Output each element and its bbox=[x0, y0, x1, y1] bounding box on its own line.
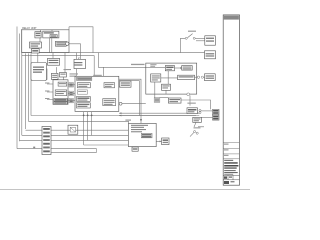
wire rt pair right 2 bbox=[119, 81, 140, 116]
G1 circles bbox=[199, 109, 201, 111]
wire radio right stub bbox=[44, 69, 47, 80]
wire vertical to T1 bbox=[52, 53, 54, 61]
low right box bbox=[205, 74, 216, 81]
rt top label row bbox=[77, 78, 92, 81]
symbol box bbox=[68, 125, 78, 134]
freq unit label bbox=[125, 120, 131, 121]
handset cluster box 2 bbox=[60, 73, 67, 78]
amp inner box a bbox=[58, 82, 67, 86]
rt bottom pins bbox=[83, 115, 85, 117]
mid right box bbox=[205, 51, 216, 59]
wire through symbol box bbox=[68, 129, 70, 131]
wire vertical to radio set box bbox=[37, 53, 39, 63]
wire vertical to box 2 area bbox=[76, 53, 78, 60]
wire horizontal bus y115 bbox=[31, 115, 199, 117]
junction dot bbox=[140, 119, 142, 121]
synth bottom connector pair bbox=[154, 98, 160, 102]
title block bbox=[223, 15, 239, 185]
switch contact b bbox=[193, 37, 195, 39]
wire horizontal bus y148 bbox=[17, 148, 97, 150]
wire drop from RT unit 3 bbox=[91, 112, 93, 135]
amp am-fm box bbox=[55, 90, 66, 96]
arrow A to C bbox=[175, 67, 181, 69]
wire W right exit bbox=[195, 76, 198, 78]
title cell row bbox=[223, 175, 239, 179]
wire G2 down bbox=[194, 122, 196, 127]
wire BC to B1 bbox=[156, 140, 160, 142]
wire left vertical bus 3 bbox=[21, 29, 23, 135]
xtal box bbox=[120, 81, 131, 87]
wire relay box interior drop 2 bbox=[49, 38, 51, 52]
amp freq row 2 bbox=[54, 102, 67, 105]
switch label bbox=[188, 31, 196, 32]
wire relay top feeds bbox=[40, 30, 42, 32]
connector stack bbox=[42, 127, 51, 155]
handset label bbox=[64, 69, 72, 70]
synth corner label bbox=[150, 64, 156, 65]
synth edge circle bbox=[197, 76, 199, 78]
G3 label bbox=[194, 127, 201, 128]
terminal circle on wire bbox=[119, 102, 122, 105]
gap connector row 3 bbox=[68, 100, 75, 102]
synth box C bbox=[182, 66, 193, 71]
wire relay box interior drop 3 bbox=[51, 38, 53, 52]
wire BC bottom stub bbox=[134, 146, 136, 148]
wire circles to H1 bbox=[201, 110, 212, 112]
relay box R2 bbox=[43, 31, 59, 38]
wire pair lower 1 bbox=[119, 112, 199, 114]
title divider rows bbox=[223, 143, 239, 159]
G1 box bbox=[187, 108, 197, 114]
wire vertical to handset cluster bbox=[64, 53, 66, 73]
wire switch to rcvr box 2 bbox=[196, 40, 205, 42]
wire A down bbox=[167, 71, 169, 84]
relay box R5 rect bbox=[56, 41, 67, 46]
box T1 bbox=[48, 58, 60, 65]
amp left labels bbox=[45, 83, 49, 84]
wire y103 to synth box bbox=[119, 103, 146, 105]
amp unit box bbox=[53, 80, 68, 105]
title bottom cells bbox=[224, 181, 229, 184]
radio set box bbox=[31, 63, 47, 81]
amp freq row 1 bbox=[54, 99, 67, 102]
wire horizontal bus y121 bbox=[29, 121, 129, 123]
wire rt to xtal box bbox=[119, 86, 122, 88]
synth box W bbox=[178, 75, 195, 80]
synth box P bbox=[162, 84, 171, 90]
wire horizontal bus y129 bbox=[26, 129, 129, 131]
rt top pin label bbox=[93, 75, 102, 76]
rt unit box bbox=[75, 76, 119, 111]
wire stack bottom run bbox=[51, 149, 97, 153]
box 2 bbox=[74, 59, 85, 68]
B1 box bbox=[162, 138, 169, 145]
wire second horizontal under relay bbox=[22, 56, 95, 76]
wire left vertical bus 5 bbox=[28, 53, 30, 121]
rt inner box right top bbox=[104, 83, 115, 88]
synth bottom circle bbox=[187, 93, 190, 96]
G3 circles bbox=[194, 131, 196, 133]
G2 box bbox=[193, 117, 202, 122]
wire drop from RT unit 1 bbox=[83, 112, 85, 145]
relay box R4 bbox=[32, 49, 40, 53]
freq sub box bbox=[132, 147, 138, 151]
switch lever bbox=[188, 34, 193, 38]
wire G2 to H2 bbox=[201, 117, 212, 119]
xmt rcv label bbox=[131, 64, 145, 65]
wire synth right to circles bbox=[197, 76, 200, 78]
wire rt top entry bbox=[103, 67, 105, 76]
wire drop from RT unit 2 bbox=[87, 112, 89, 140]
relay box R1 bbox=[35, 32, 41, 38]
rt inner box right bottom bbox=[103, 99, 116, 106]
wire rt pair right 1 bbox=[119, 79, 141, 123]
synth osc box A bbox=[165, 66, 174, 71]
wire horizontal bus y145 bbox=[84, 144, 129, 146]
G1 label bbox=[187, 103, 195, 104]
gap connector row 1 bbox=[68, 84, 75, 86]
rt inner row low bbox=[77, 103, 91, 108]
rt inner dark row bbox=[77, 97, 91, 102]
freq unit box bbox=[128, 123, 156, 146]
wire relay top feed 2 bbox=[51, 30, 53, 32]
wire circles to b low bbox=[203, 76, 204, 78]
amp left stubs bbox=[47, 84, 53, 100]
connector circles mid bbox=[201, 76, 203, 78]
gap connector row 2 bbox=[68, 92, 75, 94]
rt inner box 1 bbox=[77, 83, 90, 88]
wire horizontal bus y141 bbox=[20, 139, 129, 141]
synth box L bbox=[151, 74, 161, 82]
wire synth L-drop stub bbox=[154, 94, 156, 98]
title header band bbox=[224, 16, 239, 20]
wire xmt/rcv branch bbox=[98, 53, 165, 68]
wire pair lower 2 bbox=[119, 115, 196, 117]
handset cluster box 1 bbox=[51, 73, 58, 79]
wire under synth box bbox=[160, 97, 169, 99]
synth unit box bbox=[146, 63, 197, 94]
wire ps right run bbox=[181, 100, 211, 109]
wire riser to switch bbox=[181, 38, 186, 52]
wire from terminal circle to box 2 bbox=[69, 44, 81, 60]
pair arrowheads bbox=[119, 112, 121, 114]
wire cluster drop 1 bbox=[62, 77, 64, 80]
wire long horizontal to receiver box bbox=[22, 52, 205, 54]
H1 dark block bbox=[213, 109, 220, 114]
power supply box bbox=[168, 98, 181, 103]
wire G3 tail bbox=[190, 133, 194, 137]
wire T1 down to amp unit bbox=[55, 67, 57, 80]
wire L to W bbox=[161, 77, 178, 79]
wire stub relay corner bbox=[68, 27, 70, 30]
wire L bottom drop bbox=[154, 82, 156, 94]
rcvr top box bbox=[205, 36, 216, 45]
H2 dark block bbox=[213, 115, 220, 120]
wire circle to G1 bbox=[189, 96, 191, 106]
title text rows bbox=[224, 160, 233, 161]
junction mark bbox=[33, 147, 35, 149]
wire left vertical bus 1 bbox=[16, 27, 18, 149]
page bottom edge line bbox=[0, 189, 250, 191]
freq unit cells bbox=[141, 133, 152, 137]
wire cluster drop 2 bbox=[76, 69, 78, 77]
switch contact a bbox=[185, 37, 187, 39]
wire left vertical bus 4 bbox=[25, 53, 27, 129]
title row marks bbox=[224, 144, 229, 145]
relay box R3 bbox=[30, 42, 42, 48]
relay unit box bbox=[22, 30, 69, 53]
wire P bottom drop bbox=[165, 90, 167, 94]
rt inner box faint bbox=[77, 90, 87, 94]
wire left vertical bus 2 bbox=[19, 34, 21, 142]
wire relay box interior drop 1 bbox=[39, 37, 41, 42]
wire horizontal bus y135 bbox=[22, 134, 129, 136]
wire left vertical bus 6 bbox=[30, 53, 32, 115]
wire switch to rcvr box 1 bbox=[195, 37, 205, 39]
wire top bus from relay unit to right bbox=[69, 27, 93, 53]
terminal circle bbox=[66, 42, 69, 45]
